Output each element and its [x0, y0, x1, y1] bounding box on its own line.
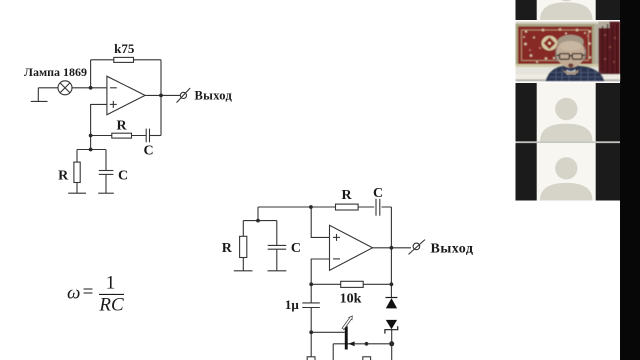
node rail middle [365, 342, 369, 346]
ground [234, 270, 253, 272]
wire non-inverting input [91, 104, 107, 149]
wire ground drop [37, 88, 39, 102]
resistor 10k [341, 281, 364, 287]
op-amp U2 [330, 225, 373, 270]
svg-text:1μ: 1μ [285, 297, 300, 312]
trimmer arrow [342, 316, 352, 330]
op-amp U2 plus sign [333, 236, 340, 238]
glasses [557, 54, 585, 60]
ground [31, 100, 48, 102]
svg-text:Выход: Выход [431, 242, 474, 257]
gate arrowhead [348, 341, 354, 346]
op-amp U1 [107, 76, 145, 115]
svg-text:k75: k75 [114, 41, 135, 56]
man shoulders [546, 66, 605, 81]
diode D1 [386, 298, 398, 309]
resistor bottom middle cut [363, 357, 371, 360]
svg-text:C: C [118, 169, 128, 184]
op-amp U1 plus sign [110, 103, 117, 105]
wire parallel branch circuit 1 [77, 149, 106, 151]
formula omega = 1/RC [67, 273, 124, 316]
wire RC parallel junction circuit 2 [243, 220, 276, 222]
video tile webcam [516, 22, 621, 82]
wire right vertical circuit 1 [160, 60, 162, 136]
svg-text:C: C [143, 144, 153, 159]
rug [516, 24, 595, 67]
svg-text:R: R [341, 188, 352, 203]
svg-text:ω: ω [67, 283, 80, 304]
svg-text:C: C [373, 186, 383, 201]
video tile 4 avatar [516, 143, 621, 200]
wire left drop circuit 2 [257, 207, 259, 221]
wire series RC circuit 1 [91, 135, 147, 137]
svg-text:R: R [58, 169, 69, 184]
ground [68, 192, 86, 194]
video tile 3 avatar [516, 83, 621, 141]
resistor R series circuit 1 [112, 133, 132, 138]
capacitor 1u [310, 284, 312, 303]
output terminal circuit 1 [180, 92, 186, 98]
rug bottom shadow [516, 64, 599, 67]
svg-text:R: R [116, 119, 127, 134]
svg-text:Лампа 1869: Лампа 1869 [24, 65, 87, 79]
separator [516, 141, 621, 143]
rug medallion [542, 36, 558, 51]
svg-text:10k: 10k [340, 292, 362, 307]
node feedback left [309, 282, 313, 286]
node output circuit 2 [390, 246, 394, 250]
node rail diode [389, 341, 394, 346]
op-amp U1 minus sign [110, 87, 117, 89]
op-amp U2 minus sign [333, 258, 340, 260]
capacitor C top circuit 2 [374, 199, 381, 216]
diode D2 zener [385, 320, 398, 334]
wire feedback 10k circuit 2 [311, 283, 391, 285]
lamp Лампа 1869 [58, 81, 72, 95]
wire op-amp output [145, 94, 180, 96]
node feedback right [390, 282, 394, 286]
formula fraction bar [99, 293, 124, 295]
svg-text:=: = [83, 282, 94, 303]
wire bottom left drop [332, 344, 334, 360]
man head [556, 37, 585, 68]
wire top circuit 2 [258, 206, 391, 208]
capacitor C parallel circuit 1 [105, 150, 107, 171]
wire output circuit 2 [373, 247, 412, 249]
wire top feedback circuit 1 [91, 59, 161, 61]
svg-text:1: 1 [106, 273, 116, 294]
resistor R parallel circuit 2 [242, 221, 244, 237]
chin neck shade [563, 70, 579, 75]
mouth [568, 63, 573, 67]
wire right vertical circuit 2 [390, 207, 392, 298]
svg-text:Выход: Выход [195, 89, 233, 103]
resistor R top circuit 2 [336, 204, 359, 210]
node 1u bottom [309, 330, 313, 334]
wire plus input circuit 2 [311, 207, 329, 237]
video tile 1 partial avatar [516, 0, 621, 20]
node parallel tap circuit 1 [89, 148, 93, 152]
node A circuit 1 inverting input [89, 86, 93, 90]
node series tap circuit 1 [89, 134, 93, 138]
output terminal circuit 2 [413, 243, 420, 250]
capacitor C parallel circuit 2 [276, 221, 278, 246]
curtain [599, 22, 621, 82]
wire bottom rail [333, 343, 392, 345]
wire diode column lower [391, 330, 393, 360]
svg-text:RC: RC [98, 295, 124, 316]
wire minus input circuit 2 [311, 259, 329, 284]
wire to FET gate-bar [311, 331, 345, 333]
transistor Q1 channel bar [345, 326, 348, 349]
resistor R parallel circuit 1 [76, 150, 78, 163]
wire lamp left [38, 87, 58, 89]
wire left vertical to inverting node [90, 60, 92, 88]
node plus tap circuit 2 [309, 205, 313, 209]
node output circuit 1 [159, 94, 163, 98]
svg-text:R: R [222, 241, 233, 256]
svg-text:C: C [291, 241, 301, 256]
resistor k75 [114, 57, 134, 62]
ground [268, 270, 287, 272]
resistor bottom left cut [307, 357, 315, 360]
ground [98, 192, 114, 194]
black strip right edge [620, 0, 640, 360]
capacitor C series circuit 1 [145, 129, 147, 143]
wire lamp to op-amp [72, 87, 107, 89]
table [516, 74, 621, 81]
rug florals [523, 28, 591, 63]
node RC junction circuit 2 [256, 219, 260, 223]
